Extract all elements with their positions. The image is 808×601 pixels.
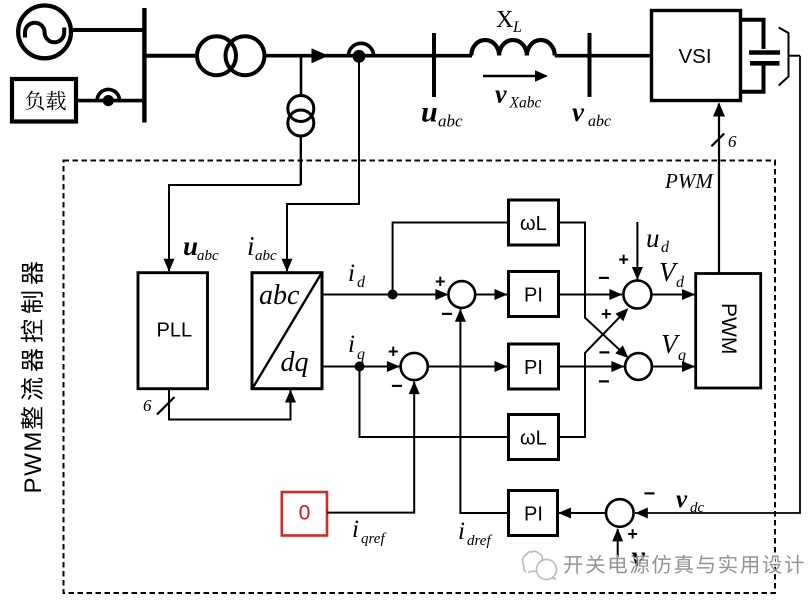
bus bar	[142, 8, 146, 123]
load box 负载	[12, 79, 76, 122]
svg-text:6: 6	[728, 132, 737, 151]
S3 to PWM	[651, 294, 694, 296]
svg-text:−: −	[391, 376, 403, 398]
i_dref wire PI3 to S1	[460, 309, 508, 513]
wire bus to transformer	[144, 54, 196, 58]
PI2 to S4	[559, 366, 625, 368]
svg-text:d: d	[357, 274, 366, 291]
S5 to PI3	[559, 512, 606, 514]
v_Xabc flow arrow	[483, 75, 536, 77]
svg-text:d: d	[676, 274, 685, 291]
svg-text:−: −	[644, 483, 656, 505]
svg-text:+: +	[618, 249, 629, 269]
AC source G1	[18, 6, 71, 59]
red zero reference box	[282, 492, 327, 536]
svg-text:u: u	[421, 96, 438, 129]
wire tick to inductor	[434, 54, 472, 58]
inductor X_L	[471, 40, 554, 56]
PI box d-axis	[509, 272, 559, 317]
branch i_d to wL	[393, 223, 508, 295]
svg-text:dq: dq	[281, 347, 309, 378]
svg-text:qref: qref	[361, 531, 386, 547]
svg-text:i: i	[348, 331, 355, 358]
svg-text:+: +	[388, 342, 399, 362]
svg-text:abc: abc	[197, 248, 219, 264]
S2 to PI2	[428, 366, 507, 368]
sum junction S2 (i_q)	[401, 353, 428, 380]
wire inductor to v_abc tick	[555, 54, 590, 58]
dashed controller boundary	[64, 161, 776, 594]
sum junction S1 (i_d)	[448, 281, 475, 308]
svg-text:X: X	[496, 7, 513, 33]
svg-text:L: L	[512, 19, 522, 36]
svg-text:−: −	[598, 371, 610, 393]
svg-text:PI: PI	[524, 285, 543, 307]
svg-text:i: i	[458, 518, 465, 545]
abc/dq transform box	[252, 273, 322, 389]
sum junction S3 (V_d)	[623, 281, 651, 309]
svg-text:+: +	[435, 272, 446, 292]
svg-text:abc: abc	[255, 248, 277, 264]
wire load to bus with tap arc	[78, 99, 147, 103]
wL bottom out, cross to S3	[559, 312, 625, 437]
svg-text:6: 6	[143, 396, 152, 415]
PWM box	[696, 274, 761, 389]
watermark logo	[523, 551, 557, 579]
PI box dc-voltage	[509, 491, 558, 536]
svg-text:abc: abc	[259, 280, 300, 311]
DC side bracket	[779, 28, 789, 86]
svg-text:v: v	[676, 486, 688, 513]
wL box bottom	[509, 415, 559, 460]
v_dcref input arrow	[617, 529, 619, 557]
svg-text:0: 0	[299, 502, 311, 525]
svg-text:v: v	[495, 80, 507, 109]
wire to VSI	[590, 54, 653, 58]
flow arrow on wire	[312, 48, 329, 63]
i_q output line	[322, 366, 400, 368]
u_d input arrow	[636, 222, 638, 280]
transformer T1	[197, 36, 265, 75]
svg-text:q: q	[357, 346, 365, 363]
u_abc measurement tick	[432, 33, 436, 97]
PI box q-axis	[509, 344, 559, 389]
wL top out, cross to S4	[559, 223, 625, 355]
CT branch wire	[300, 56, 303, 96]
load tap dot	[103, 95, 114, 106]
S1 to PI1	[475, 294, 507, 296]
svg-text:PI: PI	[524, 504, 543, 526]
S4 to PWM	[652, 366, 695, 368]
svg-text:PWM: PWM	[20, 430, 47, 493]
DC-link capacitor wiring	[741, 20, 764, 92]
svg-text:PI: PI	[524, 357, 543, 379]
wL box top	[509, 200, 559, 245]
PLL box	[138, 273, 208, 389]
i_d output line	[322, 294, 448, 296]
svg-text:PWM: PWM	[664, 169, 714, 193]
wire node to abc/dq	[287, 62, 359, 271]
PLL to abc/dq wire with 6-slash	[169, 389, 291, 420]
svg-text:abc: abc	[438, 112, 463, 131]
svg-text:VSI: VSI	[679, 45, 712, 68]
watermark text	[566, 558, 584, 576]
svg-text:PWM: PWM	[717, 303, 740, 354]
svg-text:PLL: PLL	[157, 320, 193, 342]
node with tap arc	[348, 43, 373, 56]
svg-text:i: i	[247, 231, 255, 261]
svg-text:d: d	[661, 239, 670, 256]
sum junction S4 (V_q)	[625, 353, 652, 380]
wire CT to PLL	[169, 185, 301, 271]
node on i_q	[355, 362, 365, 372]
wire AC source to bus	[72, 28, 146, 32]
PI1 to S3	[559, 294, 623, 296]
svg-text:+: +	[601, 304, 612, 324]
PWM to VSI wire with 6-slash	[718, 104, 720, 274]
svg-text:i: i	[352, 516, 359, 543]
svg-text:ωL: ωL	[520, 213, 547, 235]
sum junction S5 (v_dc)	[606, 499, 634, 527]
capacitor plates	[749, 50, 780, 55]
wire transformer to u_abc tick	[265, 54, 435, 58]
svg-text:abc: abc	[588, 113, 611, 130]
current transformer CT	[288, 96, 314, 137]
svg-text:Xabc: Xabc	[509, 95, 542, 112]
svg-text:i: i	[348, 260, 355, 287]
controller title PWM整流器控制器 (vertical)	[20, 262, 47, 494]
svg-text:−: −	[599, 342, 611, 364]
svg-text:−: −	[441, 304, 453, 326]
CT output wire down	[300, 136, 302, 185]
svg-text:ωL: ωL	[520, 428, 547, 450]
svg-text:dref: dref	[467, 533, 492, 549]
node on i_d	[388, 290, 398, 300]
i_qref wire to S2	[327, 382, 414, 513]
svg-text:u: u	[183, 231, 198, 261]
svg-text:−: −	[598, 268, 610, 290]
svg-text:dc: dc	[690, 500, 705, 516]
VSI box	[652, 11, 741, 101]
v_dc feedback wire	[635, 56, 800, 513]
v_abc measurement tick	[588, 33, 592, 97]
branch i_q to wL bottom	[360, 367, 508, 438]
svg-text:v: v	[572, 97, 585, 127]
svg-text:u: u	[646, 223, 660, 253]
